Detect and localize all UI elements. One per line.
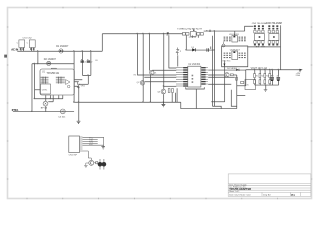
output resistor R2 (259, 74, 264, 78)
wire: left rail down (31, 64, 33, 112)
svg-text:AC IN: AC IN (11, 47, 18, 51)
DIP1 right pins (239, 37, 246, 42)
wire: transistor2 base column (142, 81, 144, 83)
connector CN2 bottom pins (254, 44, 264, 46)
connector J1 body (69, 136, 80, 153)
wire: output bottom rail (255, 84, 279, 86)
wire: column C x=149.3 to transistor (149, 34, 151, 71)
output capacitor row2 C7 (254, 80, 256, 84)
svg-text:RTN 1: RTN 1 (12, 110, 19, 112)
svg-text:R10 R11: R10 R11 (223, 60, 232, 62)
wire: DIP1 top stub (234, 31, 236, 36)
svg-text:CN3 734-163M: CN3 734-163M (266, 23, 282, 25)
diode D5 (192, 48, 195, 51)
U1 top tab (51, 67, 56, 70)
wire: bus step down (181, 102, 237, 108)
wire: U2 left pin wires (145, 81, 176, 83)
circle component Q below U1 (41, 101, 48, 110)
connector CN3 body (269, 34, 279, 41)
svg-text:CN1 ISP: CN1 ISP (69, 155, 78, 157)
svg-text:Date: 04-21 Scale: none: Date: 04-21 Scale: none (229, 194, 251, 197)
wire: small verticals to bus (172, 88, 177, 102)
transformer polarity dot (193, 30, 195, 31)
svg-text:2.1A: 2.1A (296, 74, 301, 77)
wire: zener drop to IC top (177, 55, 179, 66)
connector CN2 body (255, 34, 265, 41)
svg-text:VOUT 12V 1.0A: VOUT 12V 1.0A (251, 67, 268, 70)
connector CN3 top sockets (268, 30, 278, 33)
wire: transformer pins (186, 35, 198, 50)
svg-text:R1: R1 (256, 75, 258, 77)
wire: main bus y=102 (74, 101, 181, 103)
output capacitor row2 C8 (259, 80, 261, 84)
wire: U2 right pin wires (208, 69, 246, 71)
transistor Q1 (150, 70, 154, 74)
svg-text:Dwg: A3: Dwg: A3 (263, 194, 271, 197)
wire: riser to connector (245, 26, 254, 31)
U1 mosfet cluster 2 (56, 77, 65, 84)
wire: opto box drop (231, 90, 237, 107)
wire: column D x=163.5 (163, 34, 165, 90)
IC U2 body (188, 66, 201, 87)
wire: opto circle3 column (163, 94, 165, 102)
svg-text:D2 1N4007: D2 1N4007 (44, 58, 57, 61)
ground at J1 (101, 145, 105, 149)
wire: IC left stub (35, 89, 41, 91)
capacitor C2 (87, 60, 93, 64)
connector CN3 bottom sockets (268, 41, 278, 44)
sheet border frame (8, 8, 312, 199)
wire: column B x=142.9 (142, 34, 144, 103)
wire: link y=85.5 (237, 85, 246, 87)
svg-text:R2: R2 (261, 75, 263, 77)
connector CN2 bottom sockets (254, 41, 264, 44)
capacitor CX1 box (19, 40, 25, 48)
wire: diode columns x=84.7 x=92.9 (82, 51, 90, 75)
wire: IC bottom rail y=98.5 (35, 98, 63, 100)
DIP2 body (232, 51, 238, 60)
wire: y=101.5 link (211, 101, 224, 103)
wire: AC input wire A y=51 (17, 50, 102, 52)
diode D1 (59, 49, 63, 53)
svg-text:Sheet 1 of 1: Sheet 1 of 1 (229, 190, 239, 193)
J1 wires (83, 137, 104, 160)
transistor Q2 (140, 81, 144, 85)
terminator x=73.8 (77, 121, 81, 123)
wire: vertical x=73.8 (73, 51, 75, 102)
ground left of Q5 (84, 163, 89, 168)
output cap C11 (277, 76, 281, 81)
svg-text:BP C3: BP C3 (41, 108, 48, 110)
pin marks under boxes (20, 48, 35, 50)
capacitor C13 on rail (207, 48, 209, 51)
circle on DIP2 top wire (222, 44, 225, 47)
wire: zener column (78, 86, 80, 102)
wire: vertical x=280 to output (280, 25, 282, 70)
wire: column A x=137.2 (137, 34, 176, 75)
DIP1 left pins (224, 37, 231, 42)
wire: IC bottom stubs (51, 95, 63, 99)
opto module box (222, 46, 248, 67)
connector CN2 top pins (254, 25, 264, 29)
title block (228, 174, 311, 197)
output capacitor row2 C9 (264, 80, 266, 84)
svg-text:CTRL: CTRL (42, 90, 48, 92)
output capacitor row2 C12 (269, 80, 271, 84)
svg-text:CX1 CX2: CX1 CX2 (23, 38, 33, 40)
wire: vertical x=37.6 (37, 51, 39, 64)
wire: lower-left bus y=111.3 (13, 111, 74, 113)
output resistor R4 (269, 74, 274, 78)
wire: bus B y=63.5 (32, 63, 74, 65)
svg-text:U2 LNK304: U2 LNK304 (188, 64, 201, 66)
resistor R12 (230, 74, 233, 76)
resistors right of Q3 (168, 89, 170, 93)
wire: DIP2 left pin drop with diode (224, 60, 226, 102)
DIP1 body (232, 36, 238, 42)
svg-text:T1 EE16-Z Np 96T Ns 9T: T1 EE16-Z Np 96T Ns 9T (177, 28, 202, 30)
U2 right pin stubs (201, 68, 208, 84)
stub DIP1 to box (223, 42, 225, 45)
svg-text:PI-4218: PI-4218 (189, 37, 197, 39)
wire: mid column x=88.8 (87, 75, 89, 84)
diode D2 (47, 61, 51, 65)
circle component on lower bus (58, 109, 66, 118)
DIP2 right pins (239, 53, 246, 59)
transformer windings (182, 31, 203, 36)
connector CN2 top sockets (254, 30, 264, 33)
wire: secondary rail y=49.8 (186, 49, 214, 51)
wire: circle component below IC (45, 95, 47, 111)
transistor Q3 (161, 89, 166, 94)
wire: output bus (246, 69, 300, 71)
output ground (264, 90, 268, 92)
wire: transistor Q collector link (234, 74, 237, 76)
J1 wire labels (89, 137, 94, 145)
wire: column E x=168.6 (169, 36, 176, 68)
wire: U2 bottom stub (195, 89, 197, 109)
transistor Q5 (89, 160, 94, 165)
connector CN3 top pins (268, 25, 278, 29)
output resistor R1 (254, 74, 259, 78)
svg-text:D6 SB360: D6 SB360 (227, 68, 238, 70)
svg-text:R3: R3 (266, 75, 268, 77)
svg-text:TNY256 GN: TNY256 GN (47, 73, 60, 75)
resistor R13 vertical (236, 77, 238, 80)
IC U1 body (40, 69, 74, 95)
U2 inner marks (192, 75, 194, 83)
border zone tick marks (7, 7, 313, 200)
U1 mosfet cluster 1 (41, 77, 49, 84)
output terminal arrow (300, 69, 303, 71)
svg-text:CN2 734-163M: CN2 734-163M (252, 23, 267, 25)
wire: riser x=102 to top bus (101, 34, 103, 52)
tick above secondary rail (210, 46, 212, 49)
wire: output columns (254, 70, 256, 85)
svg-text:D1 1N4007: D1 1N4007 (56, 45, 69, 48)
wire: transistor1 emitter to bus (150, 75, 152, 102)
U1 comparator triangle (66, 80, 71, 85)
connector J1 pin stubs (80, 137, 83, 151)
wire: U2 bottom U (186, 87, 205, 89)
capacitor CX2 box (29, 40, 35, 48)
U1 inner control box (41, 84, 51, 94)
LED2 dark blob (102, 159, 107, 170)
diode on top bus (167, 32, 169, 34)
wire: y=106 link (212, 106, 221, 108)
diode on DIP2 left drop (223, 64, 225, 66)
connector CN3 bottom pins (268, 44, 278, 46)
component R14 (241, 81, 244, 83)
capacitor C1 (81, 60, 87, 64)
wire: top bus right of transformer (204, 30, 245, 32)
output resistor R3 (264, 74, 269, 78)
wire: transformer secondary columns (212, 31, 214, 106)
output cap C10 (270, 76, 274, 81)
wire: input box pins (21, 48, 34, 52)
wire: big IC right stubs (75, 80, 83, 87)
svg-text:C4 10n: C4 10n (58, 116, 66, 118)
wire: riser x=236.5 (236, 75, 238, 109)
diode D6 (236, 69, 239, 71)
wire: block bottom bus y=46.6 (248, 46, 281, 48)
U2 pin pads left (183, 67, 187, 87)
zener D3 (176, 48, 182, 56)
U2 pin pads right (201, 67, 205, 85)
zener VR1 (77, 82, 85, 89)
small resistor near Q5 (94, 162, 96, 164)
ground below bus at x=163.4 (162, 102, 166, 107)
transistor Q4 (225, 73, 229, 77)
wire: y=95.2 stub (237, 94, 246, 96)
pin marker on bus (209, 30, 211, 32)
wire: top bus T (102, 33, 182, 35)
DIP2 left pins (224, 53, 231, 59)
U2 left pin stubs (176, 68, 188, 86)
wire: output ground stem (265, 85, 267, 90)
LED1 dark blob (98, 159, 103, 170)
opto/ref box (245, 80, 256, 90)
wire: riser x=245.5 to output (245, 70, 247, 86)
wire: stub y=101.5 (48, 95, 53, 102)
zone letter on left border (4, 55, 7, 58)
